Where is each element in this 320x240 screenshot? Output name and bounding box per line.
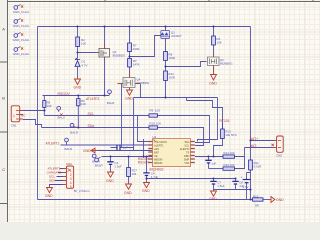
svg-text:9926BDG: 9926BDG [137,81,150,85]
wire CE rail [102,156,153,158]
wire Q2 source down [104,60,106,96]
svg-text:SCL: SCL [88,112,95,116]
resistor R3 [128,59,140,68]
CN3 wires [50,169,63,187]
svg-text:LEN: LEN [154,147,159,151]
svg-text:A: A [2,27,5,32]
wire R3 bottom [129,67,131,72]
svg-text:GND: GND [83,149,91,153]
capacitor C7 [210,180,225,188]
svg-text:1uF: 1uF [123,145,128,149]
wire TP tap ATLERT [66,142,68,145]
wire C7 C8 bottom rail [214,189,251,191]
svg-text:SMP: SMP [184,158,190,162]
svg-text:SDa: SDa [88,124,95,128]
svg-text:GND_FLAG: GND_FLAG [13,10,30,14]
svg-text:TS: TS [186,151,190,155]
wire BAT- [245,147,274,149]
wire R14 right link [235,157,245,169]
testpoint TP4 [65,138,73,151]
svg-text:GND: GND [209,82,217,86]
zone divider left y62 [0,61,8,63]
svg-text:SDa: SDa [184,140,190,144]
sheet left margin [0,0,7,222]
zone tick top x209 [208,0,210,2]
sheet top margin [0,0,320,2]
wire C5 stem [110,157,112,171]
zone divider left y203 [0,203,8,205]
svg-text:10K: 10K [47,104,52,108]
svg-text:5: 5 [70,185,72,189]
wire R8 to R12 node [165,61,167,72]
wire R4 top stub [213,27,215,37]
testpoint TP9 [92,154,100,163]
svg-text:R15: R15 [253,195,259,199]
svg-text:4.7V: 4.7V [82,63,88,67]
resistor R12 [164,71,176,81]
svg-text:RT101: RT101 [220,119,230,123]
svg-text:10k NTC: 10k NTC [225,133,236,137]
svg-text:BAT+: BAT+ [250,137,258,141]
ground GND9 below CN3 [47,186,53,193]
svg-text:10K: 10K [81,102,86,106]
svg-text:MBGIN: MBGIN [154,158,163,162]
transistor Q3 [208,53,234,73]
ground GND1 below D1 [75,77,81,85]
wire node to Q3 gate [166,62,207,67]
svg-text:GND: GND [142,189,150,193]
wire Q4 left pin down [121,84,123,148]
wire C4 gnd stem [146,179,148,182]
wire SDA right [158,128,204,146]
wire R11 top [250,141,252,161]
zener diode D1 [75,58,88,67]
svg-text:9926BDG: 9926BDG [113,53,126,57]
svg-text:1.5uF: 1.5uF [115,164,123,168]
svg-text:CN1: CN1 [11,123,17,127]
svg-text:BALR: BALR [95,163,103,167]
svg-text:9926BDG: 9926BDG [220,62,233,66]
svg-text:GND_FLAG: GND_FLAG [13,24,30,28]
wire R17 stem [128,157,130,183]
wire CN1 pin3 route [23,120,42,128]
svg-text:GND: GND [276,198,284,202]
ground GND8 below C7 [211,190,217,197]
svg-text:GND: GND [45,194,53,198]
svg-text:R16 100: R16 100 [224,163,235,167]
resistor R5 [43,100,52,107]
svg-text:C: C [2,167,5,172]
wire outer bracket [198,98,218,142]
capacitor C5 [107,161,122,169]
wire SCL [44,115,149,117]
testpoint TP1 mid [107,90,115,105]
svg-text:CN2: CN2 [276,154,282,158]
svg-text:4.7uF: 4.7uF [151,175,159,179]
wire C7 stem [213,179,215,190]
wire x137 vertical to pin1 [138,116,149,142]
resistor R9 [149,109,160,118]
wire R11 bottom [250,170,252,200]
wire D1 to gnd [77,67,79,77]
wire ALERT1 [61,144,149,146]
wire R5 bottom node [43,107,45,115]
svg-text:BALR: BALR [70,131,78,135]
wire battery link [247,173,251,180]
svg-text:1uF: 1uF [239,184,244,188]
ground GND7 below C4 [144,181,150,188]
wire x133 vertical [133,98,135,151]
sheet border left [7,0,9,222]
wire SMP rail right [195,156,223,158]
transistor Q2 [96,45,126,61]
svg-text:R14 100: R14 100 [224,151,235,155]
wire BAT- vertical [244,148,246,157]
wire Q1 top stub [165,27,167,30]
svg-text:100K: 100K [169,56,176,60]
svg-text:0R: 0R [255,204,259,208]
ground GND6 arrow right [269,197,275,203]
svg-text:RSGOV: RSGOV [58,92,71,96]
wire node to D1 [77,53,79,59]
ground GND2 below Q3 [211,73,217,81]
svg-text:GND: GND [209,197,217,201]
capacitor C4 [143,171,158,179]
testpoint TP3 [70,123,78,134]
wire left long vertical [37,27,39,200]
wire R7-R3 node [129,52,131,59]
wire TS route [187,98,223,130]
svg-text:BALR: BALR [107,101,115,105]
svg-text:BAT: BAT [154,151,159,155]
wire Q4 right pin down [140,84,142,98]
wire RSGOV rail [43,95,110,97]
testpoint TP6 [13,19,30,28]
resistor R4 [212,36,222,45]
connector CN3 bottom [63,162,90,193]
wire SDA [42,127,150,129]
svg-text:BAL0: BAL0 [58,115,65,119]
wire thermistor bottom [214,139,223,157]
wire R15 to gnd [263,199,269,201]
svg-text:GND_FLAG: GND_FLAG [13,52,30,56]
wire bottom C4 rail [147,178,236,180]
svg-text:100K: 100K [169,75,176,79]
net label RT101 [220,119,230,129]
wire cap C3 row [111,147,134,149]
ground GND-left arrow [91,148,98,153]
resistor R17 [127,168,138,177]
wire y97 horizontal [134,97,218,99]
resistor R15 [253,195,264,208]
wire C4 stem [146,157,148,179]
svg-text:1: 1 [13,114,15,118]
wire Q1 to R8 [165,41,167,52]
capacitor C8 [232,180,244,188]
svg-text:GND: GND [106,179,114,183]
resistor R7 [128,43,140,52]
svg-text:BAT-: BAT- [250,144,257,148]
svg-text:MBGIN: MBGIN [154,161,163,165]
svg-text:100: 100 [155,109,160,113]
zone divider left y132 [0,131,8,133]
svg-text:ATLERT1: ATLERT1 [86,97,100,101]
wire R2 bottom to node [77,47,79,53]
svg-text:CE: CE [154,154,158,158]
svg-text:1uF: 1uF [211,161,216,165]
testpoint TP5 top-left [13,5,30,14]
svg-text:CN3: CN3 [66,162,72,166]
svg-text:SDA: SDA [49,179,55,183]
wire R6 bottom to SDA [77,106,79,128]
svg-text:GND: GND [74,86,82,90]
connector CN2 right [272,136,284,158]
svg-text:NC: NC [21,113,26,117]
svg-text:5P_2.54mm: 5P_2.54mm [74,189,90,193]
testpoint TP8 [13,47,30,56]
resistor R8 [164,52,176,61]
connector CN1 [11,106,26,128]
transistor Q1 [159,28,182,42]
wire R4 to Q3 [213,45,215,53]
svg-text:DBN: DBN [184,154,190,158]
testpoint TP2 [57,106,65,119]
wire R7 top stub [129,27,131,44]
wire C8 stem [235,179,237,190]
sheet border top [7,1,320,3]
wire BAT+ [251,140,274,142]
ground GND5 below R17 [126,183,132,190]
svg-text:+: + [241,175,243,179]
svg-text:R9: R9 [150,109,154,113]
resistor R10 [149,121,161,129]
wire bottom rail [38,199,253,201]
svg-text:GND: GND [124,191,132,195]
testpoint TP7 [13,33,30,42]
wire R16 left rail [209,168,224,170]
wire CN1 pin1 [23,110,45,112]
ground GND3 below Q4 [127,89,133,96]
svg-text:AO3407: AO3407 [171,34,182,38]
svg-text:147K: 147K [133,63,140,67]
svg-text:VSS: VSS [184,161,189,165]
capacitor C3 [117,145,128,151]
svg-text:ATLERT1: ATLERT1 [46,142,60,146]
wire battery bottom [246,183,248,200]
svg-text:0.01R: 0.01R [254,164,262,168]
svg-text:R10: R10 [150,121,156,125]
wire node to Q2 gate [78,52,97,54]
svg-text:GND_FLAG: GND_FLAG [13,38,30,42]
wire GND-left rail [98,150,153,152]
transistor Q4 [118,72,150,90]
wire node to Q1 gate [130,36,159,57]
IC U1 BQ24032 [148,135,195,172]
resistor R6 [77,99,87,107]
svg-text:ALERT1: ALERT1 [154,144,164,148]
svg-text:BALR: BALR [65,147,73,151]
battery BT1 [241,175,251,189]
svg-text:ALERT2: ALERT2 [180,147,190,151]
zone tick top x105 [104,0,106,2]
svg-text:10K: 10K [217,40,222,44]
wire SCL right [158,116,210,143]
wire C6 stems [208,157,210,169]
svg-text:GND: GND [125,96,133,100]
ground GND4 below C5 [108,171,114,178]
wire top rail [38,26,251,28]
wire R6 top stub [77,96,79,99]
thermistor R13 [221,129,237,139]
wire x143 vertical [143,139,145,157]
wire right vertical to BAT [250,27,252,141]
zone tick top x313 [312,0,314,2]
resistor R11 [249,160,262,170]
svg-text:10K: 10K [81,42,86,46]
svg-text:1.5uF: 1.5uF [217,184,225,188]
wire R12 bottom to y97 [165,81,167,98]
wire R5 top stub [43,96,45,101]
wire R2 top stub [77,27,79,38]
resistor R2 [76,37,87,47]
svg-text:VOL/UFDO: VOL/UFDO [154,140,167,144]
resistor R14 [223,151,235,158]
svg-text:104: 104 [132,172,137,176]
net labels at CN3 [47,167,61,183]
svg-text:100: 100 [156,121,161,125]
capacitor C6 [205,160,216,165]
svg-text:B: B [2,96,5,101]
testpoint TP10 near CN3 [95,157,103,167]
svg-text:SCL: SCL [184,144,190,148]
wire Q2 drain top [104,27,106,45]
resistor R16 [223,163,235,170]
svg-text:100K: 100K [133,47,140,51]
